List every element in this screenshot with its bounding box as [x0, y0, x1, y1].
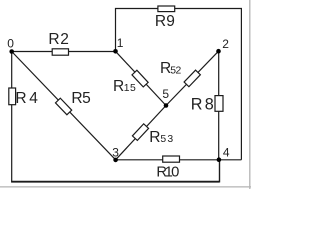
- svg-text:R: R: [113, 78, 124, 95]
- resistor R15: [132, 70, 148, 87]
- resistor R2: [52, 49, 68, 55]
- frame bottom gray line: [0, 186, 251, 188]
- wire node2 down through R8 to node4: [218, 51, 220, 160]
- resistor R53: [132, 124, 148, 141]
- svg-text:0: 0: [171, 164, 179, 180]
- wire node3-node4-right: [116, 159, 242, 161]
- frame right gray line: [249, 0, 251, 189]
- svg-text:1: 1: [117, 36, 124, 50]
- svg-text:5: 5: [162, 87, 169, 101]
- wire node0-node1: [12, 51, 116, 53]
- resistor R5: [55, 98, 71, 115]
- resistor R52: [184, 70, 200, 87]
- node 5 junction: [164, 103, 169, 108]
- svg-text:52: 52: [170, 65, 181, 76]
- svg-text:R9: R9: [155, 13, 175, 30]
- node 2 junction: [216, 49, 221, 54]
- svg-text:53: 53: [160, 134, 173, 145]
- wire node0 down through R4: [11, 52, 13, 182]
- resistor R4: [9, 88, 16, 105]
- svg-text:3: 3: [112, 146, 119, 160]
- svg-text:0: 0: [7, 37, 14, 51]
- wire diagonal node3-node5 (R53): [116, 106, 166, 160]
- svg-text:R2: R2: [48, 31, 69, 48]
- node 3 junction: [113, 158, 118, 163]
- wire bottom thick: [11, 181, 219, 183]
- node 4 junction: [217, 157, 222, 162]
- svg-text:2: 2: [222, 37, 229, 51]
- resistor R10: [163, 156, 180, 162]
- svg-text:R5: R5: [71, 90, 90, 107]
- wire diagonal node5-node2 (R52): [166, 51, 219, 105]
- wire bottom-right up to node4: [219, 160, 221, 183]
- svg-text:R8: R8: [191, 95, 214, 113]
- node 1 junction: [113, 49, 118, 54]
- resistor R9: [158, 6, 175, 12]
- wire node1 up, top, right loop to node4: [116, 9, 242, 160]
- svg-text:15: 15: [124, 83, 136, 94]
- node 0 junction: [9, 49, 14, 54]
- wire diagonal node1-node5 (R15): [116, 51, 167, 105]
- wire diagonal node0-node3 (R5): [12, 52, 116, 160]
- svg-text:4: 4: [223, 146, 230, 160]
- svg-text:R: R: [149, 129, 160, 146]
- resistor R8: [215, 96, 223, 112]
